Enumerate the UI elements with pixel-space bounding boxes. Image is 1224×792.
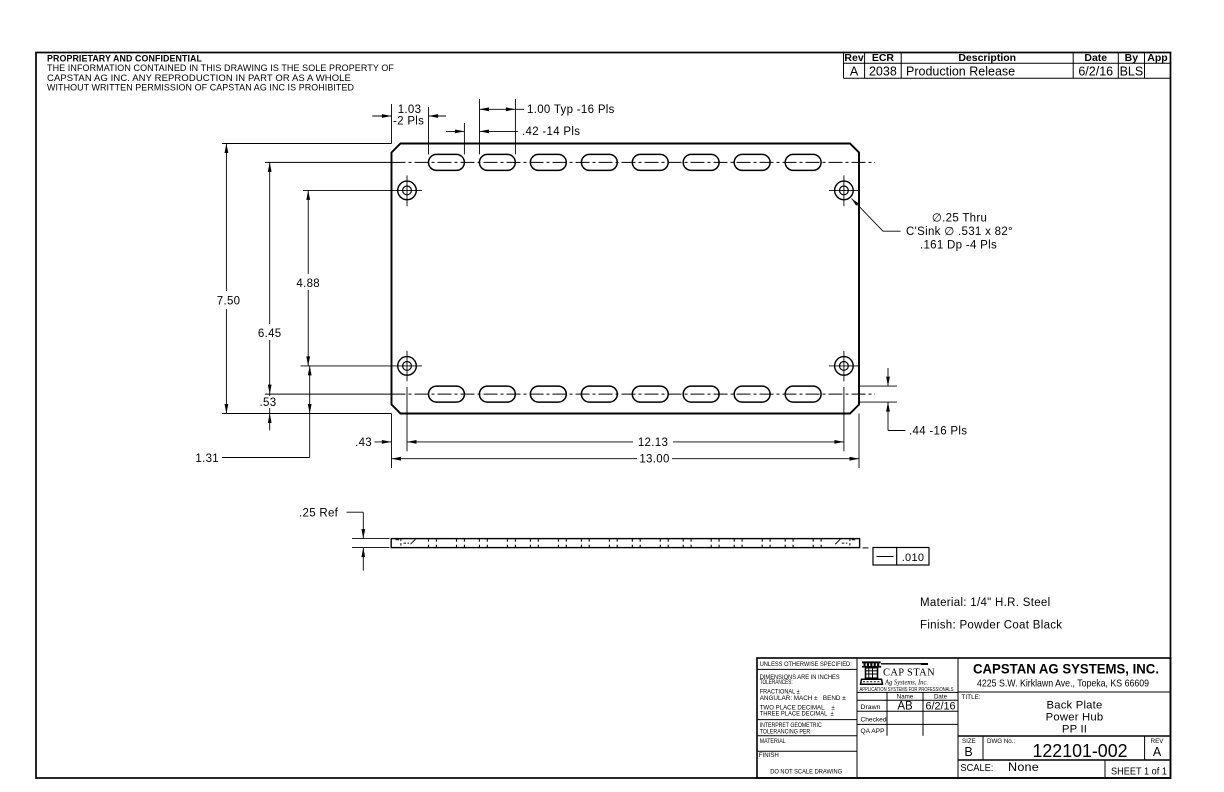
rev cell: [1151, 738, 1165, 759]
scale row: [960, 760, 1039, 774]
bottom slot row centerline (dash-dot): [265, 393, 875, 395]
checked row: [861, 717, 887, 724]
extension line top slot centerline (6.45): [265, 161, 392, 163]
svg-text:7.50: 7.50: [217, 296, 241, 308]
name date header: [897, 694, 948, 701]
svg-text:1.00 Typ -16 Pls: 1.00 Typ -16 Pls: [527, 104, 615, 116]
name date grid: [857, 692, 958, 735]
svg-text:Power Hub: Power Hub: [1046, 712, 1104, 724]
sheet cell: [1111, 767, 1167, 778]
dimension .44 -16 Pls slot width: [886, 368, 967, 438]
title block left column row lines: [757, 669, 857, 751]
svg-text:MATERIAL: MATERIAL: [760, 738, 786, 745]
dimension 1.31 bottom hole to edge: [195, 366, 311, 465]
svg-text:.010: .010: [902, 552, 925, 564]
svg-text:.42 -14 Pls: .42 -14 Pls: [522, 126, 580, 138]
side view hidden countersink left end: [396, 539, 416, 548]
material note: [920, 597, 1050, 609]
svg-text:AB: AB: [897, 701, 913, 713]
title block left column text: [759, 661, 852, 776]
svg-text:A: A: [1153, 745, 1162, 759]
extension line slot top edge right: [859, 385, 897, 387]
svg-text:-2 Pls: -2 Pls: [393, 116, 424, 128]
company name: [973, 662, 1159, 677]
svg-text:DWG No.:: DWG No.:: [987, 738, 1015, 745]
extension line hole3 centerline below: [406, 387, 408, 451]
extension line plate top (7.50): [222, 143, 392, 145]
dimension 1.00 Typ -16 Pls slot length: [480, 104, 615, 116]
top slot row centerline (dash-dot): [265, 161, 875, 163]
extension line plate bottom (7.50): [222, 413, 392, 415]
svg-text:.53: .53: [260, 397, 277, 409]
svg-text:2038: 2038: [869, 65, 897, 79]
svg-text:Back Plate: Back Plate: [1046, 699, 1102, 711]
revision table row A: [850, 65, 1143, 79]
dimension .25 Ref plate thickness: [299, 508, 365, 571]
svg-text:6.45: 6.45: [258, 328, 282, 340]
extension line plate right edge below: [858, 414, 860, 469]
svg-text:TOLERANCING PER:: TOLERANCING PER:: [760, 728, 812, 735]
svg-text:ANGULAR: MACH ± BEND ±: ANGULAR: MACH ± BEND ±: [760, 695, 846, 702]
svg-text:B: B: [964, 745, 972, 759]
company address: [977, 679, 1149, 690]
size cell: [962, 738, 976, 759]
side view bar outline: [391, 539, 859, 548]
svg-text:DO NOT SCALE DRAWING: DO NOT SCALE DRAWING: [770, 769, 842, 776]
dimension 4.88 hole spacing: [296, 190, 320, 366]
svg-text:QA APP: QA APP: [861, 728, 886, 735]
dimension .43 edge to hole center: [355, 437, 391, 449]
hole 3 crosshair: [392, 351, 422, 381]
svg-text:SCALE:: SCALE:: [960, 763, 993, 774]
svg-text:A: A: [850, 65, 859, 79]
countersunk hole 4 at (843.9,365.9): [835, 357, 854, 376]
callout text hole spec: [906, 213, 1013, 252]
dimension .53 bottom slot centerline to edge: [256, 394, 278, 430]
svg-text:None: None: [1008, 760, 1039, 774]
svg-text:Name: Name: [897, 694, 914, 701]
extension line slot2 right edge: [514, 99, 516, 154]
dimension 12.13 hole to hole: [407, 437, 844, 449]
side view hidden countersink right end: [835, 539, 855, 548]
svg-text:Production Release: Production Release: [906, 65, 1015, 79]
capstan logo wordmark: [860, 666, 955, 692]
title text: [1046, 699, 1104, 735]
svg-text:Date: Date: [934, 694, 948, 701]
svg-text:SIZE: SIZE: [962, 738, 976, 745]
feature control frame leader dash: [863, 547, 869, 549]
extension lines side view thickness: [352, 539, 390, 548]
svg-text:TOLERANCES:: TOLERANCES:: [760, 679, 793, 686]
svg-text:1.31: 1.31: [195, 453, 219, 465]
svg-text:1.03: 1.03: [398, 104, 422, 116]
svg-text:CAPSTAN AG SYSTEMS, INC.: CAPSTAN AG SYSTEMS, INC.: [973, 662, 1159, 677]
revision table grid: [844, 53, 1171, 79]
svg-text:13.00: 13.00: [639, 454, 669, 466]
size dwg rev verticals: [983, 736, 1145, 760]
svg-text:BLS: BLS: [1120, 65, 1144, 79]
extension line plate left edge below: [391, 414, 393, 469]
dimension .42 -14 Pls slot gap: [446, 126, 580, 138]
hole 2 crosshair: [829, 175, 859, 206]
dimension 6.45 slot centerline spacing: [258, 162, 282, 394]
svg-text:Ag Systems, Inc.: Ag Systems, Inc.: [884, 677, 928, 686]
svg-text:.43: .43: [355, 437, 372, 449]
revision table header row: [844, 52, 1167, 64]
countersunk hole 2 at (843.9,190.4): [835, 181, 854, 200]
countersunk hole 3 at (407.0,365.9): [398, 357, 417, 376]
top row of 8 slots (1.00 x .44): [429, 154, 822, 170]
svg-text:Drawn: Drawn: [861, 704, 881, 711]
svg-text:UNLESS OTHERWISE SPECIFIED:: UNLESS OTHERWISE SPECIFIED:: [760, 661, 852, 668]
svg-text:THREE PLACE DECIMAL ±: THREE PLACE DECIMAL ±: [760, 711, 834, 718]
hole 1 crosshair: [392, 175, 422, 206]
svg-text:12.13: 12.13: [638, 437, 668, 449]
svg-text:PP II: PP II: [1062, 724, 1087, 736]
dimension 13.00 overall width: [392, 454, 860, 466]
svg-text:122101-002: 122101-002: [1033, 741, 1128, 761]
svg-text:TITLE:: TITLE:: [962, 694, 981, 701]
svg-text:C'Sink ∅ .531 x 82°: C'Sink ∅ .531 x 82°: [906, 226, 1013, 238]
svg-text:6/2/16: 6/2/16: [925, 701, 955, 713]
svg-text:Material: 1/4" H.R. Steel: Material: 1/4" H.R. Steel: [920, 597, 1050, 609]
qa app row: [861, 728, 886, 735]
svg-text:By: By: [1125, 52, 1139, 64]
svg-text:6/2/16: 6/2/16: [1078, 65, 1113, 79]
title label: [962, 694, 981, 701]
svg-text:∅.25 Thru: ∅.25 Thru: [932, 213, 987, 225]
extension line plate left edge (above): [391, 104, 393, 144]
svg-text:.25 Ref: .25 Ref: [299, 508, 339, 520]
bottom row of 8 slots (1.00 x .44): [429, 386, 822, 402]
extension line slot1 right edge: [463, 123, 465, 154]
dimension 7.50 overall height: [217, 144, 241, 414]
extension line hole4 centerline below: [843, 387, 845, 451]
extension line slot1 left edge: [428, 107, 430, 154]
svg-text:APPLICATION SYSTEMS FOR PROFES: APPLICATION SYSTEMS FOR PROFESSIONALS: [860, 687, 955, 693]
title block right horizontal lines: [958, 692, 1171, 760]
finish note: [920, 620, 1062, 632]
svg-text:ECR: ECR: [872, 52, 895, 64]
title block outer frame and main verticals: [757, 658, 1171, 778]
svg-text:.44 -16 Pls: .44 -16 Pls: [909, 426, 967, 438]
extension line hole bottom center (4.88 / 1.31): [301, 365, 393, 367]
dwg no cell: [987, 738, 1128, 761]
logo cell bottom line: [857, 691, 958, 693]
hole 4 crosshair: [829, 351, 859, 381]
feature control frame straightness .010: [873, 548, 929, 566]
svg-text:.161 Dp -4 Pls: .161 Dp -4 Pls: [920, 239, 997, 251]
plate outline (13.00 x 7.50 back plate, chamfered corners): [392, 144, 860, 414]
svg-text:App: App: [1147, 52, 1167, 64]
drawn row: [861, 701, 956, 713]
svg-text:4.88: 4.88: [296, 278, 320, 290]
svg-text:Date: Date: [1084, 52, 1107, 64]
extension line slot2 left edge: [479, 99, 481, 154]
capstan logo boom line: [881, 663, 928, 665]
svg-text:4225 S.W. Kirklawn Ave., Topek: 4225 S.W. Kirklawn Ave., Topeka, KS 6660…: [977, 679, 1149, 690]
svg-text:WITHOUT WRITTEN PERMISSION OF: WITHOUT WRITTEN PERMISSION OF CAPSTAN AG…: [47, 82, 354, 93]
leader line to countersunk hole: [852, 199, 901, 232]
extension line slot bottom edge right: [859, 401, 897, 403]
svg-text:SHEET 1 of 1: SHEET 1 of 1: [1111, 767, 1167, 778]
svg-text:Description: Description: [958, 52, 1016, 64]
countersunk hole 1 at (407.0,190.4): [398, 181, 417, 200]
capstan logo tower icon: [861, 661, 883, 684]
proprietary and confidential note: [47, 54, 394, 94]
side view hidden lines for slots: [429, 539, 822, 548]
dimension 1.03 -2 Pls edge to first slot: [372, 104, 446, 128]
svg-text:Rev: Rev: [844, 52, 863, 64]
svg-text:REV: REV: [1151, 738, 1165, 745]
svg-text:Finish: Powder Coat Black: Finish: Powder Coat Black: [920, 620, 1062, 632]
extension line hole top center (4.88): [303, 189, 392, 191]
scale sheet vertical: [1104, 760, 1106, 778]
svg-text:FINISH: FINISH: [759, 752, 779, 759]
svg-text:Checked: Checked: [861, 717, 887, 724]
